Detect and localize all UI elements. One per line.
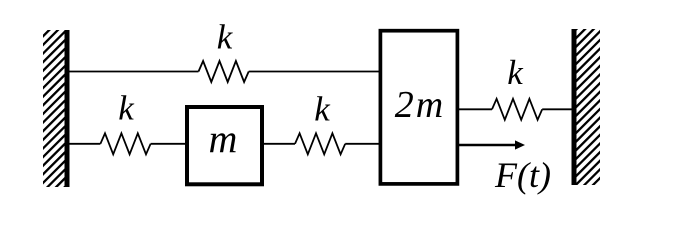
wire: mass 2m to right spring <box>457 108 492 110</box>
svg-text:k: k <box>314 90 331 129</box>
mass m box <box>187 107 262 184</box>
left wall face line <box>65 30 70 187</box>
right wall hatch <box>577 29 601 185</box>
svg-text:k: k <box>217 18 234 57</box>
wire: top spring to mass 2m <box>249 71 380 73</box>
right wall face line <box>572 29 577 185</box>
spring k top <box>199 61 249 82</box>
left wall hatch <box>43 30 65 187</box>
force arrow F(t) head <box>515 140 525 149</box>
wire: right spring to right wall <box>542 108 573 110</box>
wire: middle spring to mass 2m <box>345 143 380 145</box>
svg-text:k: k <box>507 53 524 92</box>
spring k middle <box>295 133 345 154</box>
spring k right <box>492 99 542 120</box>
wire: left spring to mass m <box>151 143 187 145</box>
wire: wall to top spring <box>68 71 199 73</box>
spring k left <box>100 133 150 154</box>
wire: wall to left spring <box>68 143 100 145</box>
svg-text:F(t): F(t) <box>494 155 551 195</box>
svg-text:m: m <box>209 116 238 161</box>
mass 2m box <box>380 31 457 184</box>
svg-text:k: k <box>118 89 135 128</box>
wire: mass m to middle spring <box>262 143 295 145</box>
force arrow F(t) shaft <box>457 144 516 146</box>
svg-text:2m: 2m <box>395 84 445 126</box>
